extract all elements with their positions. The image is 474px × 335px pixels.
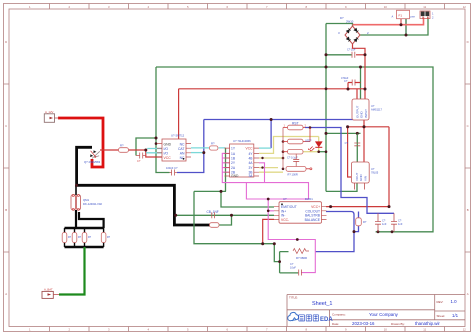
svg-text:BALSTRB: BALSTRB (305, 214, 321, 218)
svg-text:pwr: pwr (411, 15, 415, 19)
svg-text:VCC: VCC (246, 147, 254, 151)
svg-text:REV:: REV: (437, 300, 444, 304)
svg-text:VCC-: VCC- (281, 218, 289, 222)
svg-text:U? 74HC4066: U? 74HC4066 (233, 139, 251, 143)
svg-text:VCC: VCC (164, 156, 172, 160)
svg-text:F1: F1 (399, 13, 403, 17)
svg-text:LED?: LED? (305, 138, 312, 142)
svg-text:C: C (5, 124, 7, 128)
svg-text:100nF C?: 100nF C? (166, 166, 178, 170)
svg-text:CB_1NF: CB_1NF (207, 210, 219, 214)
svg-text:AMS1117: AMS1117 (371, 108, 383, 112)
svg-text:C: C (467, 124, 469, 128)
svg-text:A: A (392, 15, 394, 19)
svg-text:1nF: 1nF (382, 222, 387, 226)
svg-text:U?: U? (371, 104, 375, 108)
svg-text:BALANCE: BALANCE (305, 218, 321, 222)
svg-text:U?: U? (371, 167, 375, 171)
svg-text:AN: AN (180, 151, 185, 155)
svg-text:11: 11 (423, 328, 426, 332)
svg-text:DK-12D02-V02: DK-12D02-V02 (83, 202, 102, 206)
svg-text:Date:: Date: (332, 322, 339, 326)
svg-text:10uF: 10uF (290, 266, 296, 270)
svg-text:GND: GND (164, 142, 172, 146)
svg-text:C?: C? (137, 159, 141, 163)
svg-text:A_12V: A_12V (45, 110, 54, 114)
svg-text:C?: C? (345, 141, 349, 145)
svg-text:A_BAT: A_BAT (44, 287, 53, 291)
svg-text:Drawn By:: Drawn By: (391, 322, 405, 326)
svg-text:R? 100R: R? 100R (288, 172, 298, 176)
svg-text:R?: R? (211, 141, 215, 145)
svg-text:R? 680R: R? 680R (296, 256, 307, 260)
svg-text:RST: RST (292, 121, 299, 125)
svg-text:R?: R? (363, 220, 367, 224)
svg-text:1/1: 1/1 (452, 313, 459, 318)
svg-text:D?: D? (340, 16, 344, 20)
svg-text:U? SM712: U? SM712 (171, 134, 185, 138)
svg-text:IN-: IN- (281, 214, 285, 218)
svg-text:Sheet_1: Sheet_1 (312, 301, 333, 307)
svg-text:78L05: 78L05 (371, 171, 379, 175)
svg-text:2W10: 2W10 (346, 20, 354, 24)
svg-text:C?: C? (290, 262, 294, 266)
svg-text:Sheet:: Sheet: (437, 314, 446, 318)
svg-text:10: 10 (384, 328, 388, 332)
svg-text:VIN: VIN (364, 176, 368, 181)
svg-text:I/O: I/O (164, 151, 169, 155)
svg-text:B: B (467, 208, 469, 212)
svg-text:12: 12 (463, 328, 467, 332)
svg-text:12: 12 (463, 5, 467, 9)
svg-text:10: 10 (384, 5, 388, 9)
svg-text:D: D (467, 40, 469, 44)
svg-text:NC: NC (180, 142, 185, 146)
svg-text:INPUT: INPUT (364, 109, 368, 118)
svg-text:CAT: CAT (178, 147, 185, 151)
svg-text:C? 1uF: C? 1uF (347, 48, 356, 52)
svg-text:Your Company: Your Company (369, 312, 399, 317)
svg-text:A: A (467, 292, 469, 296)
svg-text:EDA: EDA (320, 317, 333, 323)
svg-text:B: B (5, 208, 7, 212)
svg-text:C?: C? (344, 79, 348, 83)
svg-text:11: 11 (423, 5, 426, 9)
svg-text:I/O: I/O (164, 147, 169, 151)
svg-text:EMIT/OUT: EMIT/OUT (281, 205, 297, 209)
svg-text:Q? 2SD2583: Q? 2SD2583 (84, 160, 101, 164)
svg-text:1.0: 1.0 (451, 299, 458, 304)
svg-text:U?: U? (283, 197, 287, 201)
svg-text:R?: R? (120, 144, 124, 148)
svg-text:DW01: DW01 (305, 197, 313, 201)
svg-text:A: A (5, 292, 7, 296)
svg-text:thanathip.wir: thanathip.wir (415, 321, 440, 326)
svg-text:D: D (5, 40, 7, 44)
svg-text:1nF: 1nF (398, 222, 403, 226)
svg-text:VCC+: VCC+ (311, 205, 320, 209)
svg-text:GND: GND (231, 174, 239, 178)
svg-text:2023-03-16: 2023-03-16 (352, 321, 375, 326)
svg-text:TITLE:: TITLE: (289, 295, 298, 299)
svg-text:Company:: Company: (332, 312, 346, 316)
